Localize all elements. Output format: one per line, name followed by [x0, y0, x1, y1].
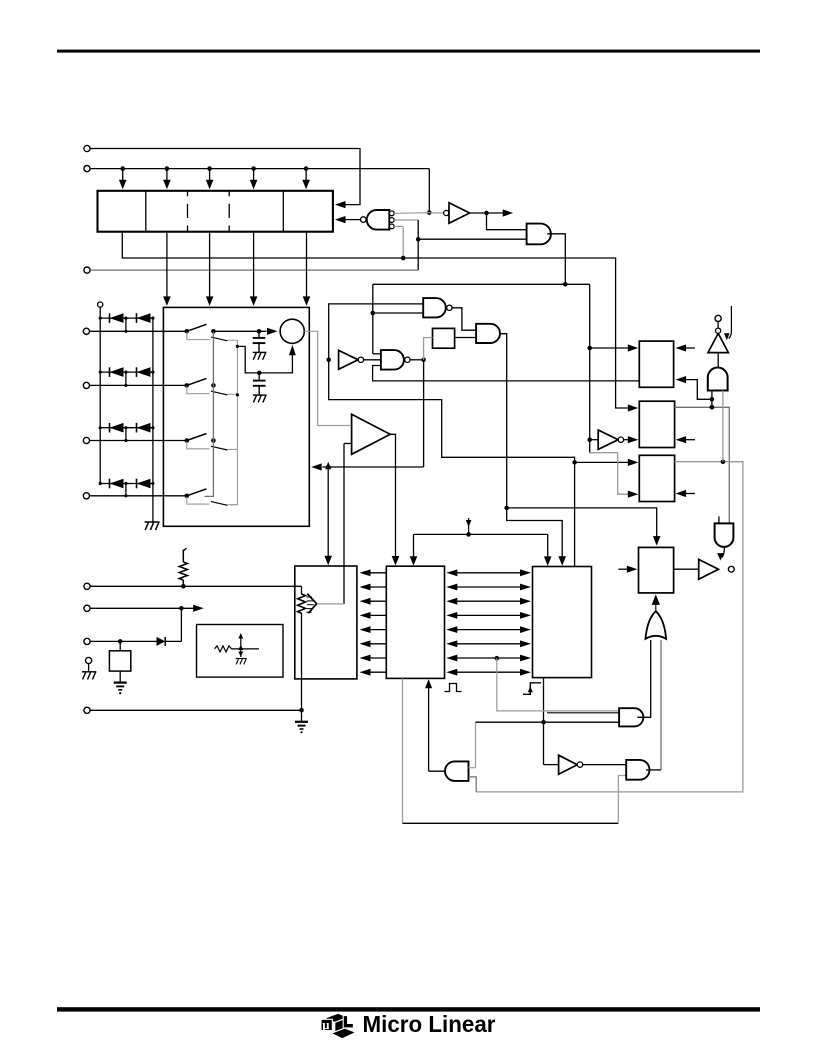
- terminal IN3: [83, 437, 89, 443]
- AND gate G4: [476, 324, 500, 343]
- one-shot box U2: [433, 328, 455, 348]
- switch S4a lever: [187, 489, 207, 496]
- diode pair row 4: [99, 479, 155, 498]
- wire down into MB3 a: [544, 534, 552, 566]
- output buffer G9: [699, 559, 719, 579]
- diode ladder right rail: [152, 318, 154, 522]
- wire NAND G3 top input net: [326, 304, 576, 465]
- wire G6 out junction: [410, 358, 426, 363]
- switch S2a lever: [187, 378, 216, 387]
- wire G14 out to G12: [583, 764, 627, 766]
- earth ground DAC: [295, 722, 308, 734]
- register load arrow 2 from NAND G1: [335, 216, 361, 223]
- wire up to G12 in2: [618, 776, 626, 824]
- earth ground U4: [114, 671, 127, 694]
- bus MB2 to MB1 arrows: [360, 569, 387, 675]
- switch S1a lever: [187, 324, 216, 333]
- terminal P2: [84, 166, 90, 172]
- wire P1 to right then down to register arrow: [90, 149, 360, 209]
- wire P7 to diode junction: [180, 608, 182, 641]
- block RB4: [639, 547, 674, 593]
- wire RB1 right arrow 2: [676, 376, 715, 402]
- wire amp output to MB2: [390, 434, 399, 565]
- wire hclk line: [414, 532, 548, 537]
- wire G11 in2 elbow: [469, 777, 477, 792]
- block RB2: [639, 401, 674, 447]
- inverter G0 input bubble: [444, 210, 449, 215]
- wire input row 1: [90, 329, 190, 334]
- annotation arrow right of G0: [487, 209, 514, 216]
- wire G14 input: [544, 764, 559, 766]
- register col2-5 arrows into switch matrix: [163, 232, 310, 306]
- terminal P6: [84, 583, 90, 589]
- ground rake P9: [82, 664, 96, 680]
- terminal P8: [84, 638, 90, 644]
- wire G11 in1 net: [469, 722, 476, 768]
- wire G12 out to OR: [646, 640, 661, 770]
- wire G4 branch to MB3 clk: [507, 508, 566, 566]
- Micro Linear wordmark: [363, 1011, 496, 1037]
- capacitor C1 to ground: [253, 331, 267, 359]
- wire G7 out arrow into RB2: [624, 436, 639, 443]
- diode ladder left rail: [99, 307, 101, 483]
- bus MB2-MB3 bidirectional: [446, 569, 531, 675]
- wire summing node to amp in1: [304, 331, 351, 425]
- wire D1 up: [165, 640, 181, 642]
- five load arrows into register top: [119, 166, 310, 189]
- AND gate G8 (round top): [708, 367, 728, 390]
- G7 output bubble: [618, 437, 623, 442]
- output buffer TRI up: [708, 333, 728, 352]
- wire bus tap to G13 in1: [497, 658, 619, 713]
- inverter G7: [598, 430, 618, 449]
- matrix rail A: [205, 331, 214, 496]
- OR gate G15 (up): [646, 611, 667, 639]
- wire U2 input: [424, 337, 433, 339]
- wire P10 to ground node: [90, 709, 301, 711]
- terminal P3: [84, 267, 90, 273]
- wire input row 3: [90, 438, 190, 443]
- wire G3 out to G4: [452, 308, 476, 330]
- wire MB2 bottom arrow from G11: [425, 679, 432, 771]
- svg-text:Micro Linear: Micro Linear: [363, 1011, 496, 1037]
- bandgap symbol: [215, 633, 260, 664]
- wire RB2 output to D-AND: [675, 405, 730, 523]
- wire P2 down to gate net: [427, 169, 444, 215]
- Micro Linear logo: [321, 1013, 356, 1039]
- wire RB4 left arrow stub: [618, 566, 637, 573]
- wire U2 out to G4 in2: [455, 337, 477, 339]
- component box U4: [109, 641, 130, 671]
- wire RB3 upper arrow: [575, 459, 639, 466]
- G14 output bubble: [577, 762, 582, 767]
- wire G7 input: [590, 439, 599, 441]
- wire AND G2 lower input: [418, 238, 526, 240]
- annotation arrow into TRI: [724, 306, 731, 340]
- capacitor C2 to ground: [253, 373, 267, 403]
- block RB3: [639, 455, 674, 501]
- summing node circle: [280, 319, 304, 343]
- diode pair row 3: [99, 423, 155, 442]
- switch S2b lever: [187, 386, 238, 395]
- wire RB1 right arrow 1 stub: [676, 344, 695, 351]
- wire G1 in3 down to feedback line: [394, 226, 405, 260]
- wire amp in2 from DAC: [344, 444, 352, 604]
- wire G1 in1 to P2 net: [394, 212, 429, 215]
- wire MB3 clk down to inverter: [541, 678, 546, 765]
- G0 output junction: [470, 211, 489, 216]
- NAND gate G6: [381, 350, 404, 370]
- wire input row 2: [90, 383, 190, 388]
- inverter G0: [449, 203, 470, 223]
- terminal IN1: [83, 328, 89, 334]
- TRI output bubble: [716, 328, 721, 333]
- G9 output bubble: [728, 566, 734, 572]
- wire G4 output to RB4/MB3: [500, 334, 661, 546]
- inverter G14: [559, 755, 578, 774]
- register block U1: [98, 191, 333, 232]
- terminal P1: [84, 145, 90, 151]
- wire arrow into switch matrix right: [311, 462, 423, 471]
- matrix rail B: [231, 340, 239, 504]
- wire G6 in2 net: [373, 366, 640, 381]
- wire RB1 left arrow: [590, 344, 639, 351]
- diode D1: [157, 637, 166, 646]
- G8 left input lead: [710, 391, 715, 410]
- bottom heavy rule: [57, 1007, 760, 1011]
- NAND gate G3: [423, 298, 446, 317]
- wire row1 to summing node: [213, 328, 277, 335]
- wire RB2 right arrow stub: [676, 436, 695, 443]
- wire rail B to integrator: [237, 345, 295, 375]
- wire down into MB1 top: [324, 467, 332, 565]
- edge glyph: [523, 683, 541, 695]
- wire G6 out net vertical: [423, 337, 425, 467]
- bandgap box U5: [197, 625, 284, 678]
- wire MB2 data down: [402, 678, 404, 823]
- wire RB3 output feedback loop: [476, 459, 743, 792]
- switch S3a lever: [187, 434, 216, 443]
- wire G11 output: [429, 770, 445, 772]
- block RB1: [639, 341, 673, 387]
- op-amp A1: [352, 414, 391, 454]
- wire G4 to MB2 top arrow: [410, 534, 418, 565]
- diode pair row 2: [99, 367, 155, 387]
- wire G3 lower input net: [371, 284, 424, 354]
- wire G1 in2 down to AND G2 and terminal P3 net: [394, 220, 420, 270]
- block MB2 (SAR): [386, 566, 444, 678]
- wire P3 to gate net: [90, 269, 418, 271]
- G8 right input lead: [722, 391, 724, 462]
- terminal P5: [98, 302, 103, 307]
- ground rake ladder: [145, 522, 160, 530]
- wire RB3 lower-left arrow net: [590, 453, 639, 498]
- switch S4b lever: [187, 497, 238, 506]
- wire register col1 feedback to RB2: [122, 232, 638, 412]
- block MB1 (DAC): [295, 566, 357, 679]
- wire into MB3 top: [574, 462, 576, 566]
- terminal IN2: [83, 382, 89, 388]
- wire G5 out: [364, 359, 381, 361]
- wire RB3 right arrow stub: [676, 490, 695, 497]
- svg-text:µ: µ: [322, 1018, 329, 1032]
- wire input row 4: [90, 494, 190, 499]
- wire y284 feedback: [373, 282, 592, 453]
- inverter G5: [339, 350, 359, 369]
- NAND gate G1 (mirrored): [367, 210, 389, 230]
- switch matrix box U3: [163, 307, 309, 526]
- G1 output bubble: [361, 217, 367, 223]
- AND gate G2: [527, 224, 551, 245]
- block MB3 (latch): [533, 567, 592, 678]
- register divider solid a: [145, 191, 147, 232]
- wire G6 in1 stub: [373, 353, 381, 355]
- AND gate G11 (mirrored): [445, 761, 469, 781]
- wire P7 annotation arrow: [90, 605, 204, 612]
- wire DAC ref in: [317, 603, 344, 605]
- terminal P9: [86, 657, 92, 663]
- wire G2 output down-left feedback: [547, 234, 565, 284]
- wire G0 out to AND G2 in1: [487, 213, 527, 230]
- AND gate G13: [619, 708, 643, 726]
- wire P6 to MB1: [90, 585, 301, 587]
- pulse glyph: [445, 684, 462, 692]
- register divider dashed c: [228, 191, 230, 232]
- wire resistor string to ground: [299, 586, 304, 721]
- terminal pad P4: [715, 315, 721, 321]
- G3 output bubble: [447, 305, 452, 310]
- wire TRI to G8: [717, 353, 719, 369]
- terminal IN4: [83, 493, 89, 499]
- wire net from MB3 clk to gates: [476, 721, 620, 723]
- G10 left input stub: [718, 516, 720, 523]
- terminal P7: [84, 605, 90, 611]
- switch S1b lever: [187, 332, 238, 341]
- switch S3b lever: [187, 442, 238, 451]
- register divider solid d: [282, 191, 284, 232]
- G6 output bubble: [405, 357, 410, 362]
- AND gate G12: [626, 760, 649, 780]
- G5 output bubble: [358, 357, 363, 362]
- terminal P10: [84, 707, 90, 713]
- G1 input bubbles: [389, 211, 394, 229]
- wire RB4 out to buffer: [674, 568, 699, 570]
- DAC wiper symbol: [298, 594, 317, 614]
- diode pair row 1: [99, 313, 155, 333]
- annotation pointer: [466, 518, 472, 534]
- wire bottom run: [403, 822, 619, 824]
- resistor R1: [179, 548, 187, 589]
- G10 output annotation arrow: [717, 547, 724, 561]
- wire P8 to diode D1: [90, 639, 156, 644]
- wire bubble to pad: [717, 322, 719, 329]
- register divider dashed b: [187, 191, 189, 232]
- wire G13 out to OR: [637, 640, 650, 717]
- wire P2 bus with taps: [90, 168, 429, 170]
- wire OR out arrow into RB4: [652, 594, 660, 611]
- top horizontal rule: [57, 50, 760, 53]
- AND gate G10 (round bottom): [715, 523, 734, 547]
